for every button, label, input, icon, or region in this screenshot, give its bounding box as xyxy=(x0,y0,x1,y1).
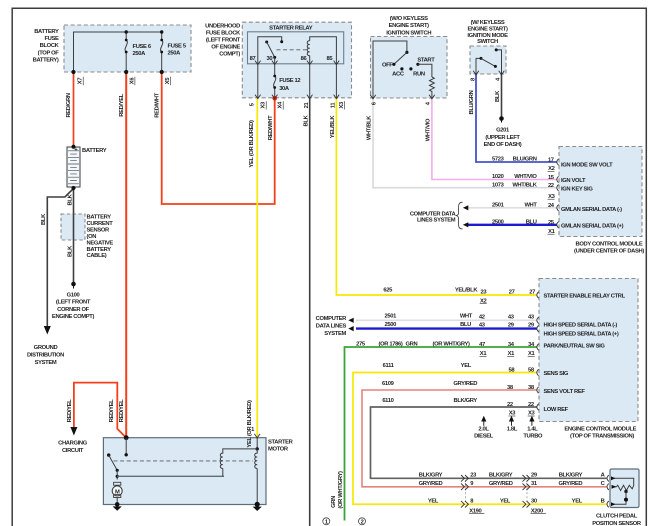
battery fuse block internal bus xyxy=(74,32,162,72)
svg-text:OFF: OFF xyxy=(382,63,393,69)
svg-text:RED/GRN: RED/GRN xyxy=(66,93,72,117)
svg-text:G100: G100 xyxy=(67,293,80,299)
BCM connector face pin 17 xyxy=(557,159,559,165)
label underhood fuse block xyxy=(205,24,241,58)
svg-text:START: START xyxy=(417,58,435,64)
svg-text:IGN VOLT: IGN VOLT xyxy=(561,178,586,184)
label engine control module xyxy=(564,427,636,440)
svg-text:B: B xyxy=(601,498,605,504)
node X4 red junction xyxy=(272,96,277,101)
svg-text:6111: 6111 xyxy=(383,363,395,369)
relay pin 86 connector arrow xyxy=(307,61,313,65)
BCM row 17 labels xyxy=(492,157,613,173)
ECM connector face starter enable xyxy=(537,292,539,298)
svg-text:(OR 1786): (OR 1786) xyxy=(379,341,403,347)
svg-text:GRY/RED: GRY/RED xyxy=(419,481,443,487)
svg-text:BLK/GRY: BLK/GRY xyxy=(489,473,513,479)
svg-text:2501: 2501 xyxy=(385,313,398,319)
relay pin wires to connector face xyxy=(258,64,337,98)
svg-text:BLU: BLU xyxy=(460,322,471,328)
svg-text:2500: 2500 xyxy=(492,219,504,225)
underhood block pin 5 connector arrow xyxy=(255,95,261,99)
ground G201 xyxy=(499,116,504,122)
svg-text:BLK: BLK xyxy=(495,90,501,102)
starter motor M xyxy=(112,482,122,504)
svg-text:WHT/BLK: WHT/BLK xyxy=(367,115,373,140)
ECM row starter enable labels xyxy=(383,287,625,304)
wire YEL (OR BLK/RED) relay 87 to starter motor pin 1 xyxy=(256,98,258,437)
label starter motor xyxy=(268,439,294,452)
ignition mode switch internal xyxy=(476,48,502,74)
svg-text:WHT/BLK: WHT/BLK xyxy=(512,182,537,188)
svg-text:22: 22 xyxy=(528,402,534,408)
svg-text:FUSE: FUSE xyxy=(44,36,59,42)
svg-text:GMLAN SERIAL DATA (+): GMLAN SERIAL DATA (+) xyxy=(561,224,624,230)
svg-text:COMPUTER: COMPUTER xyxy=(316,316,348,322)
computer data lines arrow at BCM BLU xyxy=(463,222,468,227)
starter relay box xyxy=(248,32,344,64)
svg-text:YEL (OR BLK/RED): YEL (OR BLK/RED) xyxy=(249,120,255,168)
engine control module box U2 xyxy=(539,279,638,422)
computer data lines arrow at BCM WHT xyxy=(463,205,468,210)
bottom row BLK/GRY labels xyxy=(419,473,606,479)
arrow to ground distribution system xyxy=(44,326,51,335)
svg-text:YEL/BLK: YEL/BLK xyxy=(330,115,336,139)
label fuse F6 value xyxy=(133,44,152,57)
svg-text:RUN: RUN xyxy=(413,72,425,78)
label clutch pedal position sensor xyxy=(592,513,642,526)
svg-text:CURRENT: CURRENT xyxy=(87,221,114,227)
engine 1.8L column arrow xyxy=(510,417,514,426)
ECM row sens sig labels xyxy=(383,363,569,377)
wire RED/GRN battery feed xyxy=(73,72,75,147)
ignition switch internal xyxy=(373,41,432,98)
svg-text:42: 42 xyxy=(479,315,485,321)
connector X190 label xyxy=(469,508,484,514)
pin X3 xyxy=(261,101,267,110)
ignition switch pin 6 connector arrow xyxy=(370,95,376,99)
svg-text:1.8L: 1.8L xyxy=(507,427,518,433)
ignition switch box (W/O keyless) xyxy=(371,37,448,99)
node bus junction xyxy=(125,30,128,33)
svg-text:PARK/NEUTRAL SW SIG: PARK/NEUTRAL SW SIG xyxy=(544,343,606,349)
svg-text:47: 47 xyxy=(479,342,485,348)
label computer data lines system at ECM xyxy=(316,316,348,337)
svg-text:BATTERY: BATTERY xyxy=(87,247,112,253)
clutch pedal position sensor box xyxy=(610,469,639,508)
svg-text:WHT/VIO: WHT/VIO xyxy=(426,118,432,141)
BCM connector face pin 15 xyxy=(557,176,559,182)
inline connector X190 pin 23 xyxy=(461,475,468,482)
svg-text:YEL: YEL xyxy=(500,498,511,504)
svg-text:GRN: GRN xyxy=(406,341,418,347)
svg-text:YEL: YEL xyxy=(461,363,472,369)
svg-text:ENGINE START): ENGINE START) xyxy=(467,27,508,33)
ECM row HS serial plus labels xyxy=(385,322,619,337)
svg-text:IGN KEY SIG: IGN KEY SIG xyxy=(561,186,593,192)
svg-text:MOTOR: MOTOR xyxy=(268,446,289,452)
svg-text:BLK: BLK xyxy=(41,213,47,225)
label computer data lines system at BCM xyxy=(410,211,457,223)
svg-text:30A: 30A xyxy=(279,86,290,92)
svg-text:X4: X4 xyxy=(278,101,284,109)
svg-text:30: 30 xyxy=(267,56,273,62)
svg-text:BATTERY: BATTERY xyxy=(82,148,107,154)
svg-text:GROUND: GROUND xyxy=(34,345,58,351)
svg-text:POSITION SENSOR: POSITION SENSOR xyxy=(592,521,642,526)
ignition switch pin 4 connector arrow xyxy=(429,95,435,99)
starter relay actuation dashed link xyxy=(277,49,308,51)
mode switch pin 4 connector arrow xyxy=(499,71,505,75)
underhood block pin X4 connector arrow xyxy=(272,95,278,99)
inline connector X200 pin 31 xyxy=(523,484,530,491)
svg-text:1.4L: 1.4L xyxy=(527,427,538,433)
svg-text:IGN MODE SW VOLT: IGN MODE SW VOLT xyxy=(561,162,613,168)
svg-text:2: 2 xyxy=(361,520,364,526)
svg-text:27: 27 xyxy=(509,290,515,296)
relay pin 87 connector arrow xyxy=(255,61,261,65)
svg-text:ENGINE START): ENGINE START) xyxy=(389,23,430,29)
svg-text:COMPUTER DATA: COMPUTER DATA xyxy=(410,211,457,217)
wire RED/WHT fuse5 to fuse12 xyxy=(162,72,275,204)
svg-text:RED/YEL: RED/YEL xyxy=(119,399,125,422)
underhood block pin 11 connector arrow xyxy=(334,95,340,99)
svg-text:YEL (OR BLK/RED): YEL (OR BLK/RED) xyxy=(247,400,253,448)
underhood block pin 21 connector arrow xyxy=(307,95,313,99)
svg-text:17: 17 xyxy=(548,157,554,163)
starter relay internal switch 87/30 xyxy=(258,37,283,64)
starter motor B+ node xyxy=(124,435,129,440)
svg-text:LINES SYSTEM: LINES SYSTEM xyxy=(417,217,456,223)
label ground distribution system xyxy=(27,345,64,366)
svg-text:SENS SIG: SENS SIG xyxy=(544,371,569,377)
BCM connector face pin 24 xyxy=(557,205,559,211)
svg-text:(LEFT FRONT: (LEFT FRONT xyxy=(56,300,91,306)
svg-text:RED/YEL: RED/YEL xyxy=(119,93,125,116)
svg-text:ACC: ACC xyxy=(392,72,405,78)
svg-text:5723: 5723 xyxy=(492,157,505,163)
svg-text:625: 625 xyxy=(383,287,393,293)
underhood fuse block xyxy=(242,22,351,98)
svg-text:27: 27 xyxy=(529,290,535,296)
starter motor coil feed wire xyxy=(117,475,224,477)
wire RED/YEL fuse6 to starter xyxy=(125,72,127,438)
arrow to charging circuit xyxy=(70,427,77,436)
wire BLK battery negative to G100 xyxy=(73,188,75,283)
ground G100 xyxy=(71,282,76,289)
svg-text:RED/YEL: RED/YEL xyxy=(109,399,115,422)
starter relay coil 85/86 xyxy=(307,37,336,64)
BCM connector face pin 25 xyxy=(557,222,559,228)
svg-text:RED/YEL: RED/YEL xyxy=(67,399,73,422)
svg-text:OF ENGINE: OF ENGINE xyxy=(211,45,240,51)
ground at starter motor case left xyxy=(113,502,122,511)
ECM row HS serial minus labels xyxy=(385,313,618,328)
ignition switch position labels xyxy=(382,58,435,78)
ECM connector face HS data plus xyxy=(537,325,539,331)
sensor connector face pin C xyxy=(607,484,609,490)
svg-text:FUSE BLOCK: FUSE BLOCK xyxy=(206,30,241,36)
label battery fuse block xyxy=(33,29,60,63)
svg-text:2500: 2500 xyxy=(385,322,397,328)
ignition switch resistor xyxy=(430,77,435,98)
sensor connector face pin A xyxy=(607,475,609,481)
clutch pedal position sensor internal potentiometer xyxy=(611,476,634,506)
BCM row 15 labels xyxy=(492,174,586,184)
ECM row park/neutral labels xyxy=(356,341,605,357)
starter motor solenoid link dashed xyxy=(114,460,253,462)
bottom row GRY/RED labels xyxy=(419,481,606,487)
svg-text:RED/WHT: RED/WHT xyxy=(155,92,161,117)
inline connector X200 pin 30 xyxy=(523,501,530,508)
svg-text:BLOCK: BLOCK xyxy=(40,43,60,49)
svg-text:GMLAN SERIAL DATA (-): GMLAN SERIAL DATA (-) xyxy=(561,207,622,213)
svg-text:IGNITION MODE: IGNITION MODE xyxy=(467,33,508,39)
ECM connector face park/neutral xyxy=(537,344,539,350)
svg-text:SENSOR: SENSOR xyxy=(87,228,111,234)
svg-text:STARTER ENABLE RELAY CTRL: STARTER ENABLE RELAY CTRL xyxy=(544,293,626,299)
svg-text:LOW REF: LOW REF xyxy=(544,407,569,413)
svg-text:30: 30 xyxy=(531,498,537,504)
starter motor internal switch xyxy=(107,438,128,480)
pin X3 second xyxy=(339,101,345,110)
svg-text:(LEFT FRONT: (LEFT FRONT xyxy=(206,37,241,43)
wire BLK mode sw 4 to G201 xyxy=(501,74,503,117)
svg-text:BLU: BLU xyxy=(526,219,537,225)
wire BLU GMLAN serial data plus BCM 25 xyxy=(467,224,558,226)
svg-text:GRY/RED: GRY/RED xyxy=(489,481,513,487)
svg-text:SENS VOLT REF: SENS VOLT REF xyxy=(544,389,586,395)
svg-text:SWITCH: SWITCH xyxy=(477,39,498,45)
svg-text:SYSTEM: SYSTEM xyxy=(324,331,346,337)
label G201 xyxy=(484,128,522,149)
svg-text:YEL: YEL xyxy=(572,498,583,504)
svg-text:(OR WHT/GRY): (OR WHT/GRY) xyxy=(338,471,344,509)
svg-text:STARTER: STARTER xyxy=(268,439,294,445)
ignition mode switch box (W/ keyless) xyxy=(470,46,506,74)
ECM row low ref labels xyxy=(382,398,568,417)
BCM row 22 labels xyxy=(492,182,593,200)
ECM row sens volt ref labels xyxy=(382,381,585,395)
svg-text:END OF DASH): END OF DASH) xyxy=(484,142,522,148)
svg-text:TURBO: TURBO xyxy=(523,434,543,440)
ECM connector face low ref xyxy=(537,404,539,410)
engine variant labels xyxy=(474,427,543,440)
svg-text:SYSTEM: SYSTEM xyxy=(35,360,57,366)
svg-text:1020: 1020 xyxy=(492,174,504,180)
svg-text:BLK/GRY: BLK/GRY xyxy=(559,473,583,479)
wire WHT high speed serial data minus ECM xyxy=(356,319,537,321)
ECM connector face sens sig xyxy=(537,369,539,375)
wire GRY/RED sens volt ref ECM to sensor C xyxy=(362,390,607,487)
svg-text:IGNITION SWITCH: IGNITION SWITCH xyxy=(386,31,431,37)
mode switch pin 8 connector arrow xyxy=(473,71,479,75)
inline connector X190 pin 8 xyxy=(461,501,468,508)
inline connector X200 pin 29 xyxy=(523,475,530,482)
wire WHT/BLK ignition sw 6 to BCM 22 xyxy=(373,98,557,188)
pin X7 xyxy=(78,77,84,85)
svg-text:(OR WHT/GRY): (OR WHT/GRY) xyxy=(433,341,471,347)
svg-text:WHT: WHT xyxy=(524,202,537,208)
svg-text:DISTRIBUTION: DISTRIBUTION xyxy=(27,352,64,358)
computer data lines brace at BCM xyxy=(456,202,463,229)
starter motor box M1 xyxy=(103,438,266,505)
battery current sensor box xyxy=(61,214,85,240)
inline connector X200 gang line xyxy=(526,480,528,502)
svg-text:CHARGING: CHARGING xyxy=(58,440,88,446)
starter motor pin 1 connector arrow xyxy=(254,434,260,438)
svg-text:BLK/GRY: BLK/GRY xyxy=(419,473,443,479)
svg-text:BLK: BLK xyxy=(304,114,310,126)
label fuse F5 value xyxy=(168,44,187,57)
svg-text:BATTERY: BATTERY xyxy=(87,215,112,221)
starter solenoid hold-in coil xyxy=(255,449,257,505)
label charging circuit xyxy=(58,440,88,453)
svg-text:CORNER OF: CORNER OF xyxy=(57,307,89,313)
svg-text:1073: 1073 xyxy=(492,182,505,188)
wire BLU high speed serial data plus ECM xyxy=(356,327,537,329)
label fuse F12 value xyxy=(279,78,300,92)
footnote 1 circle xyxy=(323,518,330,526)
svg-text:WHT: WHT xyxy=(460,313,473,319)
svg-text:FUSE 5: FUSE 5 xyxy=(168,44,187,50)
computer data lines arrow at ECM WHT xyxy=(348,318,353,323)
label ignition mode switch title xyxy=(467,20,508,45)
svg-text:GRY/RED: GRY/RED xyxy=(559,481,583,487)
wire RED/YEL charging circuit branch xyxy=(74,383,126,438)
svg-text:X7: X7 xyxy=(78,78,84,85)
svg-text:275: 275 xyxy=(356,341,366,347)
label ignition switch title xyxy=(386,16,431,37)
computer data lines arrow at ECM BLU xyxy=(348,326,353,331)
svg-text:6110: 6110 xyxy=(382,398,393,404)
svg-text:DIESEL: DIESEL xyxy=(474,434,494,440)
svg-text:RED/WHT: RED/WHT xyxy=(268,115,274,140)
node fuse block X5 xyxy=(160,70,164,74)
svg-text:(W/O KEYLESS: (W/O KEYLESS xyxy=(390,16,428,22)
bottom row YEL labels xyxy=(428,498,605,504)
BCM row 25 labels xyxy=(492,219,624,235)
fuse F6 250A xyxy=(125,32,128,72)
svg-text:G201: G201 xyxy=(496,128,510,134)
svg-text:BLU/GRN: BLU/GRN xyxy=(513,157,537,163)
svg-text:(ON: (ON xyxy=(87,234,97,240)
svg-text:UNDERHOOD: UNDERHOOD xyxy=(205,24,240,30)
svg-text:22: 22 xyxy=(548,183,554,189)
engine 1.4L turbo column arrow xyxy=(530,417,534,426)
svg-text:BLK/GRY: BLK/GRY xyxy=(453,398,477,404)
svg-text:YEL: YEL xyxy=(428,498,439,504)
svg-text:BATTERY: BATTERY xyxy=(34,29,59,35)
svg-text:BLK: BLK xyxy=(68,193,74,205)
sensor connector face pin B xyxy=(607,501,609,507)
battery B1 xyxy=(67,145,80,190)
svg-text:YEL/BLK: YEL/BLK xyxy=(455,287,479,293)
wire WHT/VIO ignition sw 4 to BCM 15 xyxy=(432,98,557,180)
connector X200 label xyxy=(531,508,546,514)
svg-text:2.0L: 2.0L xyxy=(478,427,489,433)
svg-text:FUSE 6: FUSE 6 xyxy=(133,44,152,50)
wire WHT GMLAN serial data minus BCM 24 xyxy=(467,207,558,209)
label body control module xyxy=(574,241,644,254)
starter solenoid pull-in coil xyxy=(220,438,259,477)
svg-text:STARTER RELAY: STARTER RELAY xyxy=(269,25,313,31)
pin X4 xyxy=(278,101,284,110)
BCM row 24 labels xyxy=(492,202,622,213)
svg-text:22: 22 xyxy=(507,402,513,408)
svg-text:250A: 250A xyxy=(133,51,147,57)
svg-text:CIRCUIT: CIRCUIT xyxy=(62,448,84,454)
label battery current sensor xyxy=(87,215,114,260)
wire YEL/BLK relay 85 to ECM starter enable xyxy=(336,98,537,295)
node fuse block X6 xyxy=(124,70,128,74)
footnote 2 circle xyxy=(359,518,366,526)
fuse F5 250A xyxy=(160,39,163,72)
ground at starter motor case right xyxy=(253,502,262,511)
svg-text:GRY/RED: GRY/RED xyxy=(453,381,477,387)
svg-text:(W/ KEYLESS: (W/ KEYLESS xyxy=(471,20,505,26)
svg-text:(TOP OF TRANSMISSION): (TOP OF TRANSMISSION) xyxy=(570,434,634,440)
wire BLU/GRN mode sw 8 to BCM 17 xyxy=(476,74,557,162)
svg-text:2501: 2501 xyxy=(492,202,505,208)
pin X5 xyxy=(165,77,171,86)
pin X6 xyxy=(129,77,135,86)
svg-text:87: 87 xyxy=(250,56,256,62)
wire BLK battery to ground distribution xyxy=(47,189,73,327)
svg-text:CABLE): CABLE) xyxy=(87,253,107,259)
relay pin 85 connector arrow xyxy=(334,61,340,65)
inline connector X190 pin 9 xyxy=(461,484,468,491)
relay pin numbers xyxy=(250,56,334,62)
svg-text:BATTERY): BATTERY) xyxy=(33,57,59,63)
svg-text:ENGINE CONTROL MODULE: ENGINE CONTROL MODULE xyxy=(564,427,636,433)
label G100 xyxy=(52,293,95,321)
svg-text:X3: X3 xyxy=(261,101,267,109)
wire YEL sens sig ECM to sensor B xyxy=(353,373,607,505)
svg-text:(UNDER CENTER OF DASH): (UNDER CENTER OF DASH) xyxy=(574,248,644,254)
relay pin 30 connector arrow xyxy=(272,61,278,65)
svg-text:X3: X3 xyxy=(339,101,345,109)
BCM connector face pin 22 xyxy=(557,185,559,191)
svg-text:COMPT): COMPT) xyxy=(219,51,240,57)
ECM connector face sens volt ref xyxy=(537,387,539,393)
svg-text:HIGH SPEED SERIAL DATA (+): HIGH SPEED SERIAL DATA (+) xyxy=(544,331,619,337)
svg-text:NEGATIVE: NEGATIVE xyxy=(87,240,114,246)
svg-text:250A: 250A xyxy=(168,51,182,57)
svg-text:X5: X5 xyxy=(165,77,171,85)
svg-text:CLUTCH PEDAL: CLUTCH PEDAL xyxy=(596,513,638,519)
svg-text:(TOP OF: (TOP OF xyxy=(38,50,60,56)
svg-text:FUSE 12: FUSE 12 xyxy=(279,78,300,84)
svg-text:WHT/VIO: WHT/VIO xyxy=(514,174,537,180)
svg-text:6109: 6109 xyxy=(382,381,395,387)
svg-text:(UPPER LEFT: (UPPER LEFT xyxy=(485,135,520,141)
svg-text:BODY CONTROL MODULE: BODY CONTROL MODULE xyxy=(576,241,643,247)
wire BLK/GRY low ref ECM to sensor A xyxy=(371,407,607,478)
wire BLK relay 86 ground xyxy=(309,98,311,526)
svg-text:BLU/GRN: BLU/GRN xyxy=(469,90,475,114)
svg-text:HIGH SPEED SERIAL DATA (-): HIGH SPEED SERIAL DATA (-) xyxy=(544,322,618,328)
inline connector X190 gang line xyxy=(465,480,467,502)
fuse F12 30A xyxy=(273,64,276,98)
svg-text:ENGINE COMPT): ENGINE COMPT) xyxy=(52,314,95,320)
engine 2.0L diesel column arrow xyxy=(482,417,486,426)
body control module box U1 xyxy=(559,147,642,237)
ECM connector face HS data minus xyxy=(537,317,539,323)
svg-text:BLK: BLK xyxy=(68,245,74,257)
svg-text:GRN: GRN xyxy=(331,496,337,508)
node fuse block X7 xyxy=(71,70,75,74)
